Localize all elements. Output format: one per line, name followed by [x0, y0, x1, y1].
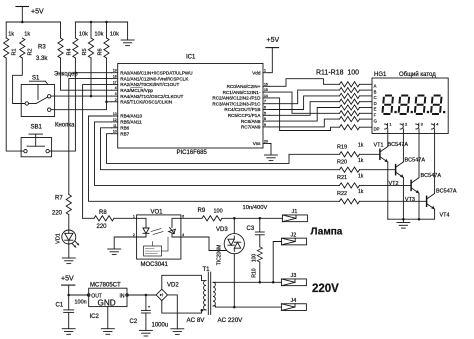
svg-text:IC1: IC1 [186, 55, 196, 61]
connector J1 [282, 209, 307, 222]
wire VT1 collector to display digit 1 [387, 134, 389, 147]
wire R10 to 220V line [259, 262, 261, 282]
wire R2 to S1 common contact [13, 58, 25, 104]
ground (transistor emitters) [397, 219, 410, 228]
svg-text:J3: J3 [291, 273, 297, 279]
pin RA0 (RA0/AN0/C1IN+/ICSPDAT/ULPWU) pin 19 [112, 69, 193, 76]
wire RB5 to R21 [95, 122, 340, 185]
wire +5V rail (R1 R2 R3 tops) [6, 21, 60, 23]
resistor R8 [83, 210, 114, 230]
junction R6 / RA5 net [105, 101, 108, 104]
svg-text:9: 9 [264, 123, 266, 127]
svg-text:13: 13 [113, 112, 117, 116]
svg-text:17: 17 [113, 80, 117, 84]
svg-text:RB6: RB6 [120, 126, 129, 131]
svg-text:16: 16 [264, 82, 268, 86]
power +5V (top-left supply symbol) [16, 7, 44, 23]
wire RC0 to R11 (segment A) [269, 79, 339, 87]
svg-text:Vss: Vss [253, 141, 261, 146]
svg-text:8: 8 [264, 117, 266, 121]
wire R4 to SB1 right contact [49, 58, 75, 151]
wire R6 to RA5 net [106, 58, 108, 102]
wire transformer primary top to J3 [216, 281, 282, 283]
wire bridge bottom to transformer secondary [162, 301, 202, 314]
wire VO1 pin4 to VD3 gate [181, 237, 226, 251]
capacitor C2 [130, 295, 169, 330]
resistor R3 [36, 22, 63, 62]
pin RB7 (RB7) pin 10 [112, 130, 130, 137]
wire R21 to VT3 base [360, 184, 412, 186]
pin RA2 (RA2/AN2/T0CKI/INT/C1OUT) pin 17 [112, 80, 180, 87]
wire bridge top to transformer secondary [162, 275, 202, 289]
wire RB6 to R20 [101, 128, 340, 170]
wire VO1 pin2 to ground [114, 237, 136, 249]
svg-text:2: 2 [133, 233, 135, 237]
svg-text:RA2/AN2/T0CKI/INT/C1OUT: RA2/AN2/T0CKI/INT/C1OUT [120, 82, 179, 87]
wire transformer primary bottom to J4 [216, 306, 282, 308]
svg-text:RB5/AN11: RB5/AN11 [120, 120, 142, 125]
svg-text:F: F [374, 113, 377, 118]
VO1 zero-crossing circuit box [144, 237, 169, 256]
wire S1 bottom contact to RA5 pin [51, 102, 112, 110]
svg-text:1k: 1k [358, 189, 364, 195]
junction ground rail at R6 [105, 21, 108, 24]
power +5V (regulator output) [61, 275, 75, 295]
svg-text:C1: C1 [56, 303, 64, 309]
junction transformer secondary bottom [201, 309, 204, 312]
resistor R19 [337, 143, 364, 157]
svg-text:10: 10 [113, 130, 117, 134]
junction R10 bottom [259, 281, 262, 284]
svg-text:A: A [374, 84, 377, 89]
display decimal point 3 [427, 111, 429, 113]
svg-text:J4: J4 [291, 298, 297, 304]
resistor R10 [251, 247, 262, 278]
svg-text:+5V: +5V [267, 37, 280, 44]
overline on MCLR (RA3 label) [131, 87, 143, 89]
junction ground rail at R5 [90, 21, 93, 24]
pin RA1 (RA1/AN1/C12IN0-/Vref/ICSPCLK) pin 18 [112, 75, 190, 82]
ground (top rail) [121, 22, 134, 46]
svg-text:R9: R9 [198, 208, 206, 214]
diode bridge VD2 [156, 282, 179, 300]
resistor R11 (segment A) [340, 82, 373, 87]
wire R19 to VT1 base [360, 153, 380, 155]
display decimal point 2 [411, 111, 413, 113]
junction C3 top [259, 217, 262, 220]
connector J3 [281, 273, 306, 286]
wire R5 to RA4 net [90, 58, 92, 96]
VO1 internal triac [151, 218, 181, 237]
svg-text:10n/400V: 10n/400V [243, 205, 268, 211]
wire regulator GND to ground [107, 307, 109, 329]
svg-text:VD2: VD2 [167, 282, 179, 288]
wire RB7 to R19 [107, 134, 340, 164]
svg-text:BC547A: BC547A [405, 158, 426, 164]
svg-text:Общий катод: Общий катод [399, 71, 436, 78]
pin digit cathode 2 of HG1 [400, 122, 408, 134]
pin RC6 (RC6/AN8) pin 8 [241, 117, 269, 124]
display digit 2 (8) [398, 95, 411, 116]
svg-text:AC 8V: AC 8V [187, 317, 206, 324]
svg-text:6: 6 [264, 106, 266, 110]
svg-text:+: + [148, 305, 151, 310]
svg-text:100: 100 [214, 209, 223, 215]
capacitor C3 [247, 218, 265, 247]
svg-text:RA3/MCLR/Vpp: RA3/MCLR/Vpp [120, 88, 153, 93]
svg-text:RC2/AN6/C12IN2-/P1D: RC2/AN6/C12IN2-/P1D [212, 96, 261, 101]
svg-text:1k: 1k [358, 174, 364, 180]
resistor R17 (segment G) [340, 117, 373, 122]
ground (LED VD1) [62, 258, 75, 264]
svg-text:100n: 100n [75, 300, 87, 306]
svg-text:R11-R18 100: R11-R18 100 [316, 70, 359, 77]
svg-text:R3: R3 [38, 45, 46, 51]
pin RC3 (RC3/AN7/C12IN3-/P1C) pin 7 [212, 100, 269, 107]
svg-text:18: 18 [113, 75, 117, 79]
svg-text:RC6/AN8: RC6/AN8 [241, 119, 261, 124]
svg-text:1k: 1k [358, 143, 364, 149]
wire VT2 emitter to ground rail [402, 178, 404, 220]
wire R1 to SB1 left contact [6, 58, 23, 151]
wire R7 to LED VD1 [68, 215, 70, 231]
svg-text:10k: 10k [79, 32, 88, 38]
transistor VT1 BC547A [380, 147, 388, 163]
svg-text:RA1/AN1/C12IN0-/Vref/ICSPCLK: RA1/AN1/C12IN0-/Vref/ICSPCLK [120, 76, 189, 81]
svg-text:1: 1 [133, 214, 135, 218]
svg-text:RC1/AN5/C12IN1-: RC1/AN5/C12IN1- [223, 90, 261, 95]
svg-text:10k: 10k [95, 32, 104, 38]
ground (Vss) [265, 144, 278, 161]
svg-text:RB7: RB7 [120, 131, 129, 136]
resistor R16 (segment F) [340, 111, 373, 116]
svg-text:GND: GND [98, 299, 116, 308]
svg-text:R6: R6 [98, 48, 104, 55]
svg-text:Лампа: Лампа [311, 226, 343, 237]
svg-text:PIC16F685: PIC16F685 [177, 150, 208, 156]
wire R8 to VO1 pin1 [114, 217, 137, 219]
svg-text:RA0/AN0/C1IN+/ICSPDAT/ULPWU: RA0/AN0/C1IN+/ICSPDAT/ULPWU [120, 70, 192, 75]
svg-text:VD1: VD1 [55, 233, 61, 244]
transistor VT2 BC547A [396, 162, 404, 178]
svg-text:TIC206M: TIC206M [217, 245, 223, 266]
svg-text:220: 220 [52, 211, 63, 217]
button SB1 [21, 125, 51, 157]
svg-text:3.3k: 3.3k [36, 56, 48, 62]
pin RC2 (RC2/AN6/C12IN2-/P1D) pin 14 [212, 94, 269, 101]
svg-text:1k: 1k [358, 158, 364, 164]
svg-text:RC5/CCP1/P1A: RC5/CCP1/P1A [228, 113, 262, 118]
svg-text:G: G [374, 118, 377, 123]
resistor R6 [98, 22, 120, 58]
pin Vss (Vss) pin 20 [253, 140, 270, 147]
svg-text:+5V: +5V [61, 275, 74, 282]
display digit 4 (8) [430, 95, 443, 116]
pin RA4 (RA4/AN3/T1G/OSC2/CLKOUT) pin 3 [112, 92, 184, 99]
svg-text:R10: R10 [251, 268, 257, 277]
svg-text:RC3/AN7/C12IN3-/P1C: RC3/AN7/C12IN3-/P1C [212, 101, 261, 106]
junction J2 drop [272, 281, 275, 284]
junction triac top [233, 217, 236, 220]
pin RC0 (RC0/AN4/C2IN+) pin 16 [227, 82, 270, 89]
resistor R15 (segment E) [340, 105, 373, 110]
svg-text:220: 220 [97, 224, 108, 230]
wire LED to ground [68, 244, 70, 258]
wire R22 to VT4 base [360, 200, 427, 202]
svg-text:R19: R19 [337, 145, 347, 151]
resistor R18 (segment DP) [340, 125, 373, 130]
resistor R1 [4, 22, 18, 58]
svg-text:BC547A: BC547A [388, 142, 409, 148]
svg-text:2: 2 [115, 98, 117, 102]
junction VT2 emitter [402, 218, 405, 221]
svg-text:20: 20 [264, 140, 268, 144]
svg-text:VT4: VT4 [440, 212, 450, 218]
LED VD1 [55, 230, 78, 247]
display decimal point 1 [394, 111, 396, 113]
junction C1 top [67, 294, 70, 297]
capacitor C1 [56, 295, 87, 329]
svg-text:J1: J1 [292, 209, 298, 215]
pin Vdd (Vdd) pin 1 [252, 69, 269, 76]
resistor R22 [337, 189, 364, 204]
junction VT3 emitter [418, 218, 421, 221]
wire VT1 emitter to ground rail [387, 162, 389, 219]
svg-text:C: C [374, 95, 377, 100]
op-amp U1 body: IC1 PIC16F685 box [118, 55, 263, 156]
svg-text:R21: R21 [337, 175, 347, 181]
triac VD3 TIC206M [216, 218, 244, 265]
resistor R14 (segment D) [340, 99, 373, 104]
svg-text:15: 15 [264, 88, 268, 92]
wire bridge right to ground [168, 295, 178, 329]
svg-text:R8: R8 [99, 210, 107, 216]
svg-text:6: 6 [182, 214, 184, 218]
resistor R4 [66, 22, 88, 58]
wire RB4 to R22 [89, 116, 340, 201]
display HG1 box [372, 71, 448, 134]
pin RA5 (RA5/T1CKI/OSC1/CLKIN) pin 2 [112, 98, 173, 105]
transformer T1 [202, 267, 216, 315]
svg-text:D: D [374, 101, 377, 106]
svg-text:1k: 1k [8, 32, 14, 38]
svg-text:SB1: SB1 [31, 125, 43, 131]
svg-text:T1: T1 [203, 267, 211, 273]
svg-text:+5V: +5V [31, 9, 44, 16]
resistor R13 (segment C) [340, 93, 373, 98]
svg-text:1k: 1k [24, 32, 30, 38]
transistor VT3 BC547A [411, 178, 419, 194]
pin RC4 (RC4/C2OUT/P1B) pin 6 [224, 106, 269, 113]
svg-text:VD3: VD3 [216, 227, 228, 233]
svg-text:19: 19 [113, 69, 117, 73]
wire RA2 to R8 (opto drive) [83, 84, 112, 218]
svg-text:RA5/T1CKI/OSC1/CLKIN: RA5/T1CKI/OSC1/CLKIN [120, 100, 172, 105]
junction +5V rail at R2 [21, 21, 24, 24]
wire regulator IN to bridge [127, 294, 156, 296]
svg-text:HG1: HG1 [374, 72, 387, 78]
wire RC1 to R16 (segment F) [269, 92, 339, 113]
svg-text:100: 100 [251, 254, 257, 263]
svg-text:BC547A: BC547A [421, 173, 442, 179]
encoder S1 [21, 76, 54, 117]
svg-text:RC0/AN4/C2IN+: RC0/AN4/C2IN+ [227, 84, 261, 89]
wire +5V rail to regulator [69, 294, 89, 296]
connector J4 [281, 298, 306, 311]
wire VT3 emitter to ground rail [418, 193, 420, 219]
power +5V (Vdd supply) [266, 37, 279, 73]
junction C2 top [145, 294, 148, 297]
svg-text:Энкодер: Энкодер [54, 72, 78, 78]
svg-text:IN: IN [120, 294, 125, 300]
op-amp U2 body: optocoupler VO1 MOC3041 box [137, 209, 181, 267]
ground (C1) [62, 329, 75, 335]
svg-text:AC 220V: AC 220V [218, 317, 244, 324]
svg-text:B: B [374, 89, 377, 94]
pin RA3 (RA3/MCLR/Vpp) pin 4 [112, 86, 154, 93]
transistor VT4 BC547A [427, 194, 435, 210]
svg-text:R20: R20 [337, 159, 347, 165]
svg-text:14: 14 [264, 94, 268, 98]
connector J2 [282, 232, 307, 245]
wire RC5 to R14 (segment D) [269, 102, 339, 116]
wire VT2 collector to display digit 2 [402, 134, 404, 162]
pin digit cathode 4 of HG1 [431, 122, 439, 134]
svg-text:R1: R1 [12, 48, 18, 55]
svg-text:E: E [374, 107, 377, 112]
svg-text:RA4/AN3/T1G/OSC2/CLKOUT: RA4/AN3/T1G/OSC2/CLKOUT [120, 94, 183, 99]
wire VD3 to 220V line [233, 254, 235, 307]
wire R9 to J1 (lamp line) [222, 217, 282, 219]
svg-text:R4: R4 [66, 48, 72, 55]
svg-text:12: 12 [113, 118, 117, 122]
junction VD3 bottom [233, 306, 236, 309]
wire VT4 emitter to ground rail [434, 209, 436, 219]
svg-text:4: 4 [115, 86, 117, 90]
display digit 1 (8) [381, 95, 394, 116]
pin RB5 (RB5/AN11) pin 12 [112, 118, 143, 125]
svg-text:5: 5 [264, 111, 266, 115]
wire VT3 collector to display digit 3 [418, 134, 420, 178]
resistor R21 [337, 174, 364, 189]
wire R20 to VT2 base [360, 169, 396, 171]
svg-text:R5: R5 [82, 48, 88, 55]
svg-text:220V: 220V [312, 283, 339, 295]
resistor R2 [20, 32, 34, 59]
pin RC5 (RC5/CCP1/P1A) pin 5 [228, 111, 270, 118]
svg-text:10k: 10k [110, 32, 119, 38]
svg-text:1: 1 [264, 69, 266, 73]
junction R4 / RA0 net [74, 71, 77, 74]
node Encoder net (RA0 row) [54, 72, 112, 78]
resistor R7 [52, 195, 71, 217]
svg-text:BC547A: BC547A [436, 189, 457, 195]
wire S1 top contact to RA4 pin [51, 95, 112, 97]
ground (VO1 pin 2) [108, 249, 121, 255]
VO1 internal LED [137, 218, 150, 237]
svg-text:IC2: IC2 [90, 314, 100, 320]
wire R3 to RA3 pin [61, 58, 112, 90]
wire VT4 collector to display digit 4 [434, 134, 436, 194]
resistor R5 [82, 22, 104, 58]
svg-text:Vdd: Vdd [252, 70, 261, 75]
junction R5 / RA4 net [90, 95, 93, 98]
svg-text:R7: R7 [55, 196, 63, 202]
resistor R9 [198, 208, 223, 221]
wire RC6 to R15 (segment E) [269, 108, 339, 122]
svg-text:S1: S1 [32, 76, 40, 82]
svg-text:7: 7 [264, 100, 266, 104]
wire VO1 pin6 to R9 [181, 217, 202, 219]
svg-text:J2: J2 [291, 232, 297, 238]
wire RC3 to R12 (segment B) [269, 90, 339, 104]
svg-text:1000u: 1000u [152, 323, 169, 329]
wire RC2 to R18 (segment DP) [269, 98, 339, 131]
svg-text:C2: C2 [130, 319, 138, 325]
wire J2 to 220V line [273, 242, 281, 283]
ground (IC2 GND) [101, 329, 114, 335]
svg-text:Кнопка: Кнопка [55, 123, 75, 129]
wire ground rail (R4 R5 R6 tops) [75, 21, 127, 23]
resistor R20 [337, 158, 364, 172]
display digit 3 (8) [414, 95, 427, 116]
svg-text:3: 3 [115, 92, 117, 96]
svg-text:MC7805CT: MC7805CT [90, 282, 121, 288]
svg-text:4: 4 [182, 233, 184, 237]
wire emitter ground rail [388, 218, 435, 220]
ground (C2) [139, 330, 152, 336]
svg-text:VO1: VO1 [151, 209, 164, 215]
svg-text:MOC3041: MOC3041 [141, 262, 169, 268]
svg-text:R22: R22 [337, 191, 347, 197]
wire RA1 to R7 (LED drive) [69, 79, 112, 195]
svg-text:DP: DP [374, 126, 380, 131]
pin RC7 (RC7/AN9) pin 9 [241, 123, 269, 130]
svg-text:VT3: VT3 [405, 197, 415, 203]
pin RB4 (RB4/AN10) pin 13 [112, 112, 143, 119]
op-amp U3 body: regulator IC2 MC7805CT [87, 282, 128, 320]
display decimal point 4 [443, 111, 445, 113]
svg-text:11: 11 [113, 124, 117, 128]
pin digit cathode 3 of HG1 [416, 122, 424, 134]
wire RC4 to R13 (segment C) [269, 96, 339, 110]
wire RC7 to R17 (segment G) [269, 119, 339, 127]
svg-text:C3: C3 [247, 226, 255, 232]
svg-text:RB4/AN10: RB4/AN10 [120, 114, 142, 119]
resistor R12 (segment B) [340, 88, 373, 93]
ground (bridge) [171, 329, 184, 335]
svg-text:RC4/C2OUT/P1B: RC4/C2OUT/P1B [224, 107, 260, 112]
svg-text:R2: R2 [28, 48, 34, 55]
svg-text:RC7/AN9: RC7/AN9 [241, 125, 261, 130]
pin RC1 (RC1/AN5/C12IN1-) pin 15 [223, 88, 270, 95]
svg-text:VT1: VT1 [374, 143, 384, 149]
pin digit cathode 1 of HG1 [385, 122, 393, 134]
svg-text:VT2: VT2 [389, 181, 399, 187]
pin RB6 (RB6) pin 11 [112, 124, 130, 131]
